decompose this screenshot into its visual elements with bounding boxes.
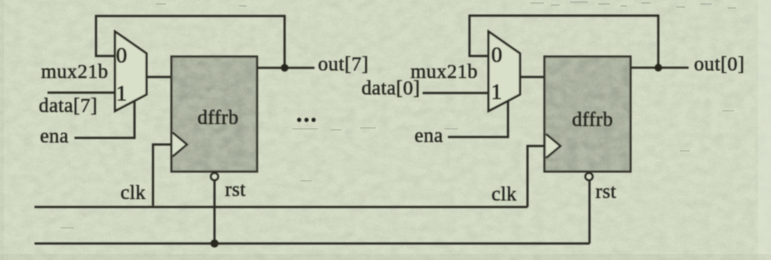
svg-text:1: 1 [116,80,127,105]
junction dot at out[7] node [281,64,289,72]
svg-text:mux21b: mux21b [411,61,478,83]
wire U1 Q output to out[7] [257,67,315,69]
svg-text:0: 0 [116,42,127,67]
svg-text:out[0]: out[0] [694,54,745,76]
wire clk to U1 clock pin [153,145,172,206]
flip-flop U1 (dffrb) body [172,57,258,172]
wire data[0] to mux M2 input 1 [423,92,488,94]
svg-text:clk: clk [121,182,146,204]
svg-text:data[7]: data[7] [39,95,98,117]
flip-flop U2 (dffrb) body [545,57,631,172]
wire mux M1 output to dffrb U1 D input [147,76,172,78]
wire ena to mux M1 select pin [75,100,135,138]
wire clk bus [35,206,528,208]
multiplexer M1 (mux21b) body [115,32,147,112]
clock triangle on U2 [546,134,561,158]
wire U2 rst bubble to rst bus [588,180,590,243]
wire U2 Q output to out[0] [631,67,689,69]
reset bubble on U1 [211,173,218,180]
wire clk bus to U2 clock pin [528,146,546,207]
svg-text:ena: ena [40,126,69,148]
scan ghost marks mid page [60,110,734,229]
junction dot rst bus tap [211,240,219,248]
wire feedback loop: out[7] node up and over to mux M1 input 0 [96,16,285,68]
svg-text:out[7]: out[7] [318,53,369,75]
wire U1 rst bubble to rst bus [213,180,215,243]
svg-text:data[0]: data[0] [362,78,421,100]
svg-text:rst: rst [225,179,246,201]
wire mux M2 output to dffrb U2 D input [520,76,545,78]
wire rst bus [35,242,590,244]
wire feedback loop: out[0] node up and over to mux M2 input 0 [470,16,659,68]
svg-text:0: 0 [491,42,502,67]
reset bubble on U2 [585,173,592,180]
wire data[7] to mux M1 input 1 [48,91,115,93]
svg-text:ena: ena [415,125,444,147]
multiplexer M2 (mux21b) body [489,32,521,112]
svg-text:clk: clk [492,184,517,206]
svg-text:mux21b: mux21b [41,61,108,83]
clock triangle on U1 [173,133,187,157]
svg-text:rst: rst [596,181,617,203]
scan ghost marks top edge [156,1,736,9]
junction dot at out[0] node [655,64,663,72]
svg-text:dffrb: dffrb [572,109,613,131]
ellipsis between stages [297,118,301,122]
svg-text:dffrb: dffrb [198,107,239,129]
svg-text:1: 1 [491,79,502,104]
wire ena to mux M2 select pin [448,100,508,137]
